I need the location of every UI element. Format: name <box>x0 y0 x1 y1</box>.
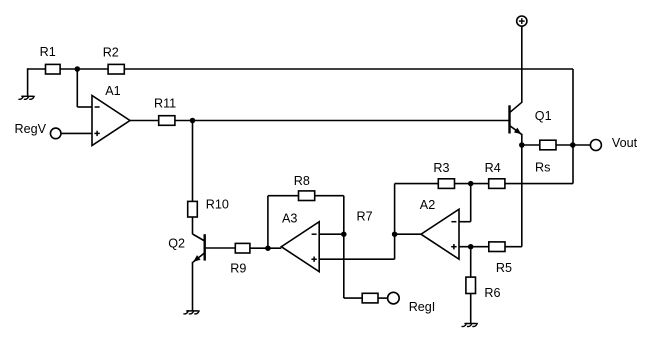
resistor R2 <box>103 46 125 74</box>
wire <box>250 247 281 249</box>
wire <box>556 144 573 146</box>
wire <box>343 196 345 235</box>
svg-text:Rs: Rs <box>535 161 550 175</box>
svg-text:RegV: RegV <box>15 122 47 136</box>
node <box>190 118 196 124</box>
node <box>570 142 576 148</box>
wire <box>76 69 78 107</box>
svg-text:R10: R10 <box>206 198 229 212</box>
node <box>75 66 81 72</box>
resistor R10 <box>188 198 229 217</box>
wire <box>124 68 573 70</box>
wire <box>175 120 509 122</box>
resistor R11 <box>154 97 176 126</box>
resistor R7box <box>362 293 378 303</box>
svg-text:Q2: Q2 <box>168 237 185 251</box>
resistor R9 <box>230 243 250 275</box>
svg-text:A1: A1 <box>105 84 120 98</box>
wire <box>394 234 396 259</box>
svg-text:R5: R5 <box>496 261 512 275</box>
wire <box>206 247 236 249</box>
terminal Vout <box>590 136 637 151</box>
op-amp A3 <box>281 211 319 271</box>
op-amp A2 <box>420 198 459 259</box>
svg-text:R7: R7 <box>357 209 373 223</box>
svg-text:R11: R11 <box>154 97 176 111</box>
resistor R8 <box>294 174 315 200</box>
wire <box>521 145 523 247</box>
resistor R6 <box>466 277 501 300</box>
svg-text:R2: R2 <box>103 46 119 60</box>
wire <box>344 297 362 299</box>
wire <box>470 247 472 278</box>
wire <box>395 233 421 235</box>
wire <box>521 26 523 103</box>
wire <box>573 144 591 146</box>
svg-text:A3: A3 <box>282 211 297 225</box>
wire <box>192 121 194 202</box>
wire <box>572 69 574 145</box>
resistor R5 <box>489 242 512 275</box>
wire <box>319 258 394 260</box>
wire <box>522 144 540 146</box>
wire <box>343 234 345 298</box>
svg-text:R1: R1 <box>40 45 56 59</box>
wire <box>315 195 344 197</box>
wire <box>192 217 194 234</box>
resistor R4 <box>485 161 505 189</box>
wire <box>505 183 573 185</box>
wire <box>572 145 574 184</box>
wire <box>61 132 92 134</box>
power supply + <box>517 16 527 26</box>
transistor Q1 <box>510 102 552 134</box>
svg-text:A2: A2 <box>420 198 435 212</box>
wire <box>459 221 471 223</box>
svg-text:R3: R3 <box>433 161 449 175</box>
terminal RegV <box>15 122 62 139</box>
node <box>519 142 525 148</box>
node <box>468 181 474 187</box>
wire <box>60 68 108 70</box>
node <box>265 245 271 251</box>
svg-text:R8: R8 <box>294 174 310 188</box>
ground <box>462 324 477 327</box>
wire <box>267 196 269 249</box>
wire <box>470 294 472 324</box>
op-amp A1 <box>92 84 130 146</box>
wire <box>470 184 472 222</box>
wire <box>521 134 523 145</box>
resistor R1 <box>40 45 61 74</box>
wire <box>319 233 344 235</box>
svg-text:Q1: Q1 <box>535 109 552 123</box>
wire <box>454 183 488 185</box>
wire <box>28 68 46 70</box>
wire <box>27 68 29 96</box>
transistor Q2 <box>168 234 205 262</box>
wire <box>459 246 489 248</box>
wire <box>378 297 388 299</box>
ground <box>19 96 34 99</box>
svg-text:RegI: RegI <box>409 300 436 314</box>
terminal RegI <box>388 292 436 314</box>
node <box>392 231 398 237</box>
node <box>468 244 474 250</box>
wire <box>130 120 159 122</box>
node <box>341 231 347 237</box>
wire <box>192 262 194 311</box>
wire <box>268 195 299 197</box>
resistor Rs <box>535 140 556 174</box>
wire <box>395 183 439 185</box>
svg-text:R9: R9 <box>230 261 246 275</box>
resistor R3 <box>433 161 454 189</box>
wire <box>505 246 522 248</box>
svg-text:R6: R6 <box>484 286 500 300</box>
ground <box>184 311 199 314</box>
wire <box>394 184 396 235</box>
svg-text:Vout: Vout <box>612 136 638 150</box>
svg-text:R4: R4 <box>485 161 501 175</box>
wire <box>77 106 92 108</box>
